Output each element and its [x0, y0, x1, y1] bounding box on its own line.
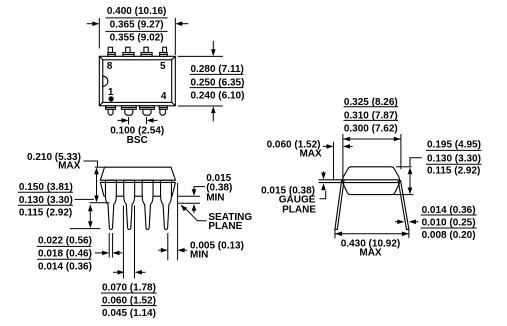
svg-text:0.130 (3.30): 0.130 (3.30)	[19, 195, 73, 206]
dimension 0.300 extension lines	[343, 134, 401, 180]
dimension 0.430 MAX labels	[341, 238, 401, 258]
svg-text:MIN: MIN	[206, 192, 224, 203]
body height arrow	[394, 167, 414, 194]
lead width right arrow	[113, 251, 123, 256]
side view body top face	[100, 167, 175, 180]
end view body outline	[343, 167, 400, 195]
end view left lead	[335, 180, 344, 229]
pin 4 (bottom row, half pin)	[159, 106, 167, 115]
dimension 0.060 MAX labels	[267, 140, 322, 160]
svg-text:BSC: BSC	[127, 135, 148, 146]
svg-text:0.014 (0.36): 0.014 (0.36)	[422, 205, 476, 216]
pin 2 (bottom row)	[121, 106, 136, 115]
svg-text:0.115 (2.92): 0.115 (2.92)	[427, 166, 480, 177]
dimension 0.195/0.130/0.115 labels	[426, 139, 482, 176]
side view lead 3	[142, 180, 153, 229]
dimension 0.210 leader	[84, 161, 105, 167]
dimension 0.430 line and arrows	[335, 232, 409, 237]
svg-text:MAX: MAX	[359, 248, 382, 259]
pin 5 (top row, half pin)	[160, 47, 168, 56]
dimension 0.100 BSC ticks	[129, 117, 147, 124]
pin number 5	[160, 61, 166, 72]
svg-text:0.130 (3.30): 0.130 (3.30)	[427, 153, 481, 164]
svg-text:0.240 (6.10): 0.240 (6.10)	[191, 91, 245, 102]
dimension 0.015 leader and arrows	[192, 187, 205, 214]
svg-text:0.115 (2.92): 0.115 (2.92)	[19, 208, 72, 219]
dimension 0.015 MIN labels	[206, 173, 232, 203]
svg-text:0.010 (0.25): 0.010 (0.25)	[422, 217, 476, 228]
side view body parting line 2 overdraw	[100, 181, 175, 183]
svg-text:MAX: MAX	[299, 149, 322, 160]
svg-text:0.195 (4.95): 0.195 (4.95)	[427, 139, 481, 150]
pin number 4	[161, 91, 167, 102]
dimension 0.100 BSC labels	[110, 126, 164, 146]
svg-text:MIN: MIN	[190, 250, 208, 261]
svg-text:0.400 (10.16): 0.400 (10.16)	[107, 6, 167, 17]
dimension 0.400 right arrow	[175, 21, 188, 26]
lead 1 width extension lines	[109, 233, 112, 258]
lead width left arrow	[95, 251, 109, 256]
svg-text:0.250 (6.35): 0.250 (6.35)	[191, 77, 245, 88]
svg-text:5: 5	[160, 61, 166, 72]
svg-text:0.008 (0.20): 0.008 (0.20)	[422, 230, 476, 241]
pin 1 (bottom row, half pin)	[106, 106, 116, 115]
dimension 0.022/0.018/0.014 labels	[37, 236, 92, 273]
pin 1 dot	[109, 96, 114, 101]
seating plane label	[208, 212, 252, 232]
pin 1 index notch	[103, 76, 108, 86]
lead 2 shoulder extension lines	[123, 206, 134, 279]
svg-text:4: 4	[161, 91, 167, 102]
svg-text:MAX: MAX	[58, 160, 81, 171]
pin 8 (top row, half pin)	[108, 47, 115, 56]
gauge plane leader and arrows	[320, 172, 326, 199]
svg-text:0.300 (7.62): 0.300 (7.62)	[344, 124, 398, 135]
top view body outer outline	[99, 56, 175, 106]
seating plane leader arrow	[181, 205, 207, 221]
side view lead 4	[161, 180, 172, 229]
svg-text:0.014 (0.36): 0.014 (0.36)	[38, 262, 92, 273]
pin number 1	[108, 87, 114, 98]
dimension lead length arrow	[88, 204, 93, 228]
pin number 8	[107, 61, 113, 72]
dimension 0.100 right arrow	[147, 118, 158, 123]
seating plane line left segment	[90, 202, 110, 204]
pin 3 (bottom row)	[140, 106, 155, 115]
svg-text:0.150 (3.81): 0.150 (3.81)	[19, 182, 73, 193]
svg-text:0.325 (8.26): 0.325 (8.26)	[344, 97, 398, 108]
top view body inner outline	[99, 56, 175, 106]
pin 7 (top row)	[123, 47, 134, 56]
dimension 0.005 MIN labels	[190, 240, 244, 260]
dimension 0.005 right arrow	[178, 248, 187, 253]
body bottom reference line right	[178, 195, 200, 197]
svg-text:0.365 (9.27): 0.365 (9.27)	[110, 19, 164, 30]
svg-text:0.280 (7.11): 0.280 (7.11)	[191, 64, 244, 75]
dimension 0.280 bottom arrow	[211, 106, 216, 121]
dimension 0.210 MAX label	[27, 152, 81, 172]
svg-text:0.070 (1.78): 0.070 (1.78)	[102, 283, 156, 294]
dimension 0.130 leader line	[75, 198, 95, 200]
dimension 0.400 extension lines	[99, 18, 175, 55]
dimension 0.005 left arrow	[158, 248, 168, 253]
dimension 0.400/0.365/0.355 labels	[106, 6, 168, 44]
dimension 0.430 ticks	[335, 230, 409, 239]
side view body parting line	[100, 181, 175, 183]
dimension 0.005 extension lines	[168, 183, 178, 260]
shoulder width left arrow	[113, 270, 124, 275]
dimension 0.300 line and arrows	[343, 137, 401, 142]
svg-text:0.018 (0.46): 0.018 (0.46)	[38, 249, 92, 260]
svg-text:0.310 (7.87): 0.310 (7.87)	[344, 110, 398, 121]
dimension 0.130 bracket leader	[396, 158, 422, 167]
svg-text:0.022 (0.56): 0.022 (0.56)	[38, 236, 92, 247]
dimension 0.060 arrows and line	[323, 142, 353, 180]
side view lead 2	[124, 180, 135, 229]
dimension 0.014/0.010/0.008 labels	[421, 205, 477, 241]
dimension 0.280 top arrow	[211, 41, 216, 56]
dimension 0.015 gauge plane labels	[261, 186, 316, 216]
lead thickness right arrow	[409, 220, 419, 225]
shoulder width right arrow	[135, 270, 146, 275]
lead thickness left arrow	[395, 220, 404, 225]
svg-text:PLANE: PLANE	[282, 204, 316, 215]
dimension 0.070/0.060/0.045 labels	[101, 283, 157, 319]
dimension 0.280 extension lines	[178, 56, 223, 106]
dimension 0.400 left arrow	[87, 21, 100, 26]
side view body lower band	[100, 182, 175, 196]
seating plane line right segment	[178, 202, 200, 204]
dimension 0.280/0.250/0.240 labels	[190, 64, 245, 102]
dimension 0.325/0.310/0.300 labels	[344, 97, 399, 135]
svg-text:0.045 (1.14): 0.045 (1.14)	[102, 308, 156, 319]
pin 6 (top row)	[141, 47, 152, 56]
svg-text:8: 8	[107, 61, 113, 72]
end view right lead	[398, 180, 409, 229]
svg-text:0.355 (9.02): 0.355 (9.02)	[110, 33, 164, 44]
svg-text:PLANE: PLANE	[208, 221, 242, 232]
lead tip reference line	[70, 228, 101, 230]
side view lead 1	[105, 180, 116, 229]
svg-text:0.060 (1.52): 0.060 (1.52)	[102, 295, 156, 306]
dimension 0.100 left arrow	[118, 118, 129, 123]
dimension 0.150/0.130/0.115 labels	[18, 182, 73, 219]
dimension 0.210 arrow	[94, 167, 99, 202]
gauge plane lines	[319, 180, 400, 183]
